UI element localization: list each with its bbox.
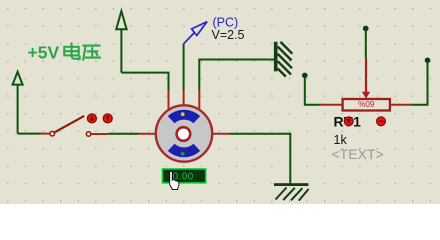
- wire probe net to motor pin 2: [183, 44, 185, 90]
- motor pin top 3: [198, 90, 200, 111]
- terminal dot pot right: [425, 58, 431, 64]
- pot wiper arrow: [362, 58, 370, 99]
- voltage probe arrow: [184, 22, 208, 44]
- pot button down: [377, 117, 386, 126]
- motor pin right: [212, 133, 231, 135]
- power terminal left: [13, 72, 23, 134]
- ground symbol bottom: [274, 183, 309, 200]
- terminal dot pot left: [302, 73, 308, 79]
- pot pin left: [320, 104, 343, 106]
- motor stator arc top: [168, 110, 200, 124]
- wire switch to motor: [109, 133, 139, 135]
- svg-text:<TEXT>: <TEXT>: [332, 146, 384, 162]
- switch pin left: [41, 133, 50, 135]
- motor stator arc bottom: [168, 144, 200, 158]
- ground wall symbol: [274, 42, 292, 77]
- switch lever: [54, 116, 84, 132]
- pot RV1 body: [343, 99, 390, 111]
- motor rpm display: [163, 169, 206, 183]
- switch pin right: [91, 133, 109, 135]
- pot pin right: [390, 104, 412, 106]
- switch toggle button 2: [103, 114, 112, 123]
- wire motor pin3 to ground wall: [199, 60, 274, 91]
- wire motor right to ground: [230, 134, 290, 184]
- svg-text:V=2.5: V=2.5: [212, 28, 245, 42]
- motor green dot: [181, 152, 185, 156]
- power terminal top: [116, 11, 126, 73]
- wire wiper: [365, 30, 367, 58]
- wire left power to switch: [18, 133, 41, 135]
- wire pot left: [305, 77, 320, 105]
- switch right terminal ring: [86, 132, 91, 137]
- motor rotor: [177, 127, 191, 141]
- motor yellow dot: [181, 112, 185, 116]
- text label 电压 (drawn strokes): [64, 44, 100, 60]
- svg-text:+5V: +5V: [28, 42, 60, 62]
- switch toggle button 1: [87, 114, 96, 123]
- motor M body: [156, 105, 212, 161]
- motor pin top 1: [168, 90, 170, 111]
- pot button up: [344, 117, 353, 126]
- motor pin left: [139, 133, 157, 135]
- motor pin top 2: [183, 90, 185, 106]
- terminal dot wiper: [363, 26, 369, 32]
- svg-text:60%: 60%: [358, 99, 374, 108]
- wire pot right: [412, 62, 428, 105]
- switch left terminal ring: [50, 131, 55, 136]
- mouse cursor hand: [170, 171, 179, 189]
- svg-text:1k: 1k: [334, 133, 348, 147]
- wire from top power to motor pin A: [121, 73, 168, 91]
